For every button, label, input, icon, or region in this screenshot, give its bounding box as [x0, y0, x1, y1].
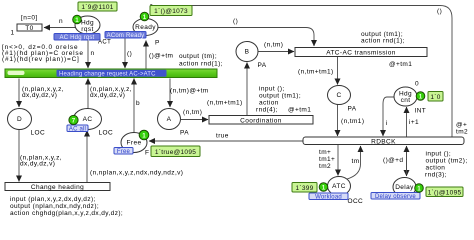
svg-text:(n,tm): (n,tm) [264, 42, 283, 49]
svg-text:ATC: ATC [332, 183, 346, 190]
svg-text:tm2: tm2 [319, 163, 331, 170]
svg-text:dx,dy,dz,v): dx,dy,dz,v) [20, 161, 55, 168]
svg-text:Heading change request AC->ATC: Heading change request AC->ATC [59, 72, 156, 78]
svg-text:ACom Ready: ACom Ready [107, 33, 145, 39]
svg-text:input ();: input (); [259, 86, 285, 93]
svg-text:1`()@1073: 1`()@1073 [154, 8, 188, 15]
svg-text:AC: AC [83, 116, 93, 123]
svg-text:Workload: Workload [315, 194, 342, 200]
svg-text:output (tm);: output (tm); [179, 53, 217, 60]
svg-text:tm+: tm+ [319, 149, 331, 156]
svg-text:AC Hdg rqst: AC Hdg rqst [60, 35, 95, 41]
svg-text:dx,dy,dz,v): dx,dy,dz,v) [22, 92, 57, 99]
svg-text:PA: PA [180, 130, 189, 137]
svg-text:Free: Free [127, 140, 142, 147]
svg-text:(n,tm)@+tm: (n,tm)@+tm [170, 88, 209, 95]
svg-text:P: P [155, 40, 160, 47]
svg-text:()@+tm: ()@+tm [149, 53, 173, 60]
svg-text:1: 1 [419, 93, 423, 100]
svg-text:(): () [127, 51, 132, 58]
svg-text:input (plan,x,y,z,dx,dy,dz);: input (plan,x,y,z,dx,dy,dz); [10, 196, 96, 203]
svg-text:@+: @+ [456, 122, 467, 129]
svg-text:7: 7 [72, 117, 76, 124]
svg-text:(n,tm1): (n,tm1) [341, 118, 364, 125]
svg-text:ATC-AC transmission: ATC-AC transmission [326, 50, 396, 57]
svg-text:(n,tm+tm1): (n,tm+tm1) [298, 69, 334, 76]
svg-text:Delay observe: Delay observe [375, 194, 416, 200]
svg-text:A: A [167, 116, 172, 123]
svg-text:()@+d: ()@+d [383, 157, 403, 164]
svg-text:Change heading: Change heading [31, 184, 84, 191]
svg-text:0: 0 [415, 81, 419, 88]
svg-text:@+tm1: @+tm1 [288, 107, 311, 114]
svg-text:Coordination: Coordination [240, 117, 282, 124]
svg-text:C: C [336, 92, 341, 99]
svg-text:true: true [216, 133, 229, 140]
svg-text:input ();: input (); [426, 151, 452, 158]
svg-text:(n,tm): (n,tm) [183, 109, 202, 116]
svg-text:(): () [437, 8, 442, 15]
svg-text:action rnd(1);: action rnd(1); [179, 61, 223, 68]
svg-text:1`0: 1`0 [430, 94, 440, 101]
svg-text:F: F [145, 150, 149, 157]
svg-text:i+1: i+1 [409, 119, 419, 126]
svg-text:(n,nplan,x,y,z,ndx,ndy,ndz,v): (n,nplan,x,y,z,ndx,ndy,ndz,v) [90, 170, 183, 177]
svg-text:D: D [17, 116, 22, 123]
svg-text:AC all: AC all [69, 126, 86, 132]
svg-text:action rnd(1);: action rnd(1); [361, 38, 405, 45]
svg-text:1: 1 [11, 30, 15, 37]
svg-text:n: n [59, 18, 63, 25]
svg-text:(): () [233, 18, 238, 25]
svg-text:rqst: rqst [81, 26, 93, 33]
svg-text:rnd(4);: rnd(4); [256, 107, 278, 114]
svg-text:(#1)(hd(rev plan))=C]: (#1)(hd(rev plan))=C] [2, 56, 80, 63]
svg-text:tm1+: tm1+ [319, 156, 335, 163]
svg-text:1`true@1095: 1`true@1095 [155, 149, 196, 156]
svg-text:1: 1 [417, 185, 421, 192]
svg-text:OCC: OCC [348, 198, 364, 205]
svg-text:cnt: cnt [401, 97, 411, 104]
svg-text:tm: tm [352, 158, 360, 165]
svg-text:dx,dy,dz,v): dx,dy,dz,v) [90, 92, 125, 99]
svg-text:1: 1 [142, 132, 146, 139]
svg-text:T0: T0 [25, 25, 33, 32]
svg-text:PA: PA [348, 106, 357, 113]
svg-text:action chghdg(plan,x,y,z,dx,dy: action chghdg(plan,x,y,z,dx,dy,dz); [10, 210, 123, 217]
svg-text:n: n [91, 50, 95, 57]
svg-text:i: i [386, 120, 388, 127]
svg-text:action: action [259, 100, 279, 107]
svg-text:RDBCK: RDBCK [371, 138, 396, 145]
svg-text:tm2: tm2 [456, 129, 468, 136]
svg-text:Free: Free [117, 149, 131, 155]
svg-text:1: 1 [322, 184, 326, 191]
svg-text:ACT: ACT [98, 40, 111, 46]
svg-text:1`399: 1`399 [295, 185, 313, 192]
svg-text:1: 1 [75, 17, 79, 24]
svg-text:Ready: Ready [135, 24, 156, 31]
svg-text:PA: PA [258, 62, 267, 69]
svg-text:output (nplan,ndx,ndy,ndz);: output (nplan,ndx,ndy,ndz); [10, 203, 99, 210]
svg-text:b: b [136, 100, 140, 107]
svg-text:output (tm1);: output (tm1); [259, 93, 301, 100]
svg-text:Delay: Delay [395, 184, 414, 191]
svg-text:B: B [245, 49, 250, 56]
svg-text:[n=0]: [n=0] [21, 15, 38, 22]
svg-text:(n,tm+tm1): (n,tm+tm1) [207, 100, 243, 107]
svg-text:1: 1 [143, 14, 147, 21]
svg-text:1`9@1101: 1`9@1101 [81, 4, 113, 11]
svg-text:action: action [426, 165, 446, 172]
svg-text:1`()@1095: 1`()@1095 [428, 190, 462, 197]
svg-text:@+tm1: @+tm1 [389, 61, 412, 68]
svg-text:INT: INT [415, 108, 427, 115]
svg-text:output (tm2);: output (tm2); [426, 158, 468, 165]
svg-text:LOC: LOC [99, 130, 114, 137]
svg-text:LOC: LOC [31, 130, 46, 137]
svg-text:rnd(3);: rnd(3); [425, 172, 447, 179]
